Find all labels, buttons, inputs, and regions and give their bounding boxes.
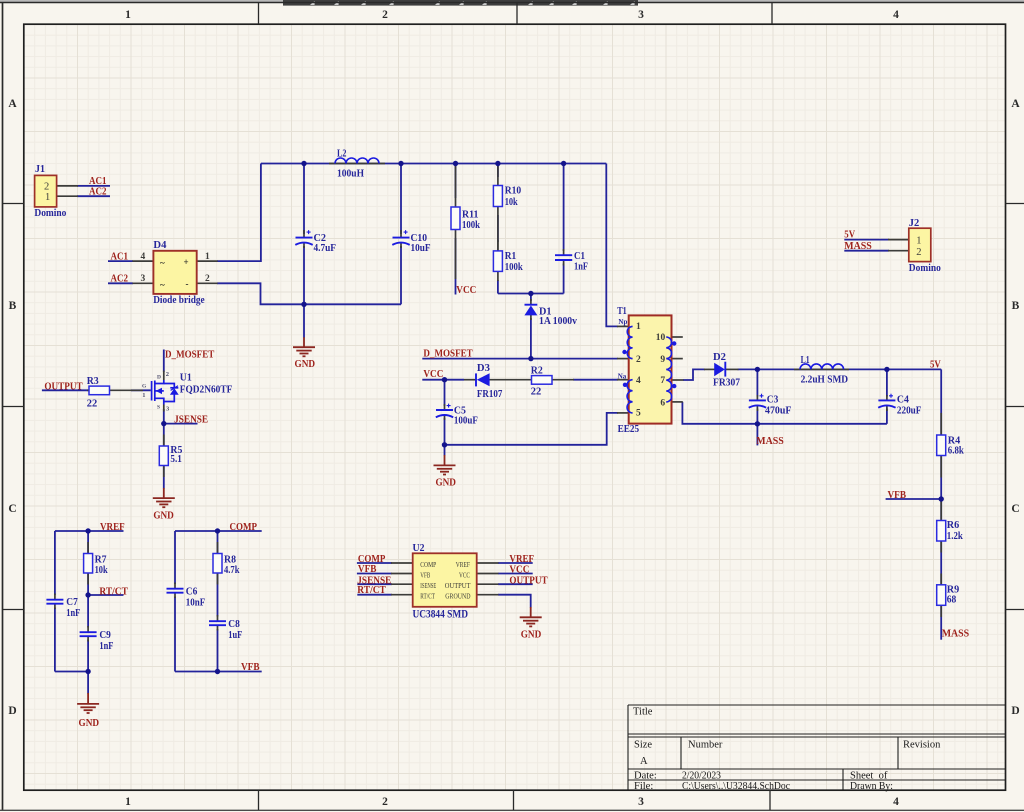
- wire R11 top leg: [455, 164, 457, 199]
- mosfet U1 labels: [142, 371, 233, 413]
- svg-text:5V: 5V: [844, 229, 855, 241]
- wire C2 top leg: [303, 164, 305, 235]
- svg-text:MASS: MASS: [942, 628, 970, 640]
- zone divider bottom 1|2: [258, 790, 260, 810]
- svg-text:R8: R8: [224, 554, 236, 565]
- svg-text:1: 1: [125, 9, 131, 21]
- svg-text:Domino: Domino: [909, 263, 941, 274]
- wire C7 bottom leg: [54, 608, 56, 672]
- wire C8 bottom leg: [217, 629, 219, 672]
- zone divider bottom 3|4: [769, 790, 771, 810]
- op-amp U2 controller box: [413, 543, 477, 621]
- svg-text:4: 4: [636, 376, 641, 386]
- svg-text:2: 2: [382, 796, 388, 808]
- svg-text:GND: GND: [153, 511, 174, 522]
- svg-text:D2: D2: [713, 352, 726, 363]
- junction C5 bottom: [442, 442, 447, 447]
- wire R8 top leg: [217, 531, 219, 554]
- wire DC+ top bus: [261, 163, 606, 165]
- svg-text:A: A: [1011, 98, 1020, 110]
- svg-text:FQD2N60TF: FQD2N60TF: [180, 383, 233, 395]
- wire U2 ISENSE stub: [357, 583, 392, 585]
- pin C1 bottom: [563, 260, 565, 266]
- mosfet U1 body diode triangle: [170, 388, 179, 395]
- svg-text:D: D: [8, 705, 16, 717]
- resistor R2: [531, 365, 552, 397]
- svg-text:9: 9: [660, 355, 665, 365]
- zone divider top 1|2: [258, 3, 260, 25]
- capacitor C3: [749, 394, 792, 417]
- pin C1 top: [563, 249, 565, 255]
- outer border bottom: [0, 809, 1024, 811]
- wire U1 source to JSENSE node: [163, 409, 165, 424]
- pin R2 right: [552, 379, 574, 381]
- svg-text:GND: GND: [79, 718, 100, 729]
- T1 polarity dot aux: [623, 383, 627, 387]
- svg-text:C:\Users\..\U32844.SchDoc: C:\Users\..\U32844.SchDoc: [682, 781, 790, 792]
- svg-text:1nF: 1nF: [574, 261, 588, 272]
- zone divider right C|D: [1006, 609, 1024, 611]
- svg-text:100k: 100k: [505, 262, 523, 273]
- wire C1 top leg: [563, 164, 565, 252]
- svg-text:RT/CT: RT/CT: [420, 591, 435, 600]
- pin C3 bottom: [756, 406, 758, 411]
- svg-text:220uF: 220uF: [897, 405, 922, 416]
- pin R5 bottom: [163, 466, 165, 478]
- svg-text:10k: 10k: [95, 565, 108, 576]
- wire R2 to T1 pin4: [573, 379, 618, 381]
- svg-text:1A 1000v: 1A 1000v: [539, 316, 578, 327]
- svg-text:1.2k: 1.2k: [947, 531, 963, 542]
- resistor R5: [159, 445, 182, 465]
- svg-text:D: D: [1011, 705, 1019, 717]
- wire R1 bottom leg: [497, 280, 499, 294]
- junction C2 bottom: [301, 302, 306, 307]
- wire snubber to D1 cathode: [530, 294, 532, 302]
- svg-text:COMP: COMP: [420, 560, 436, 569]
- junction R11 top: [453, 161, 458, 166]
- wire VCC to D3: [422, 379, 464, 381]
- diode D2: [713, 352, 740, 389]
- junction C4 top: [884, 367, 889, 372]
- resistor R10: [493, 186, 521, 208]
- wire MASS stub below C3: [756, 424, 758, 446]
- svg-text:3: 3: [638, 796, 644, 808]
- svg-text:VFB: VFB: [888, 489, 907, 501]
- svg-text:R7: R7: [95, 554, 107, 565]
- T1 secondary winding: [666, 337, 671, 402]
- pin C2 bottom: [303, 243, 305, 248]
- junction VFB divider: [939, 496, 944, 501]
- svg-text:-: -: [186, 279, 189, 289]
- svg-text:4: 4: [141, 252, 146, 262]
- svg-text:1: 1: [45, 192, 50, 203]
- wire U2 OUTPUT stub: [498, 583, 533, 585]
- wire C5 bottom leg: [444, 418, 446, 445]
- svg-text:J2: J2: [909, 218, 920, 229]
- wire R5 bottom to GND: [163, 465, 165, 489]
- diode D3: [476, 363, 502, 400]
- wire 5V to J2 pin1: [844, 239, 889, 241]
- ground symbol under U2: [520, 607, 542, 626]
- wire U2 GROUND to GND: [498, 595, 531, 608]
- pin J2-1: [888, 239, 909, 241]
- svg-text:4.7uF: 4.7uF: [314, 243, 337, 254]
- wire C10 bottom leg: [400, 246, 402, 304]
- pin R11 bottom: [455, 230, 457, 280]
- pin T1-4: [617, 379, 630, 381]
- zone divider left A|B: [3, 203, 24, 205]
- svg-text:1: 1: [142, 392, 145, 399]
- svg-text:VFB: VFB: [420, 570, 430, 579]
- svg-text:C4: C4: [897, 395, 910, 406]
- junction COMP rail: [215, 528, 220, 533]
- wire VFB node to R6: [940, 499, 942, 522]
- svg-text:3: 3: [638, 9, 644, 21]
- svg-text:470uF: 470uF: [765, 405, 792, 416]
- ground symbol under C5: [434, 455, 456, 475]
- svg-text:22: 22: [531, 387, 542, 398]
- svg-text:D_MOSFET: D_MOSFET: [423, 347, 473, 359]
- zone divider left C|D: [3, 609, 24, 611]
- inductor L2: [335, 149, 379, 180]
- svg-text:T1: T1: [617, 306, 627, 317]
- svg-text:AC2: AC2: [89, 186, 107, 198]
- svg-text:C7: C7: [66, 597, 78, 608]
- capacitor C10: [392, 230, 430, 254]
- pin D4-2: [197, 282, 218, 284]
- svg-text:UC3844 SMD: UC3844 SMD: [413, 608, 469, 620]
- pin U2 COMP: [391, 562, 413, 564]
- svg-text:R6: R6: [947, 520, 960, 531]
- wire AC1 to bridge pin4: [108, 260, 133, 262]
- svg-text:COMP: COMP: [230, 521, 258, 533]
- wire OUTPUT to R3: [42, 389, 89, 391]
- svg-text:10uF: 10uF: [411, 243, 431, 254]
- svg-text:RT/CT: RT/CT: [99, 586, 128, 598]
- wire T1 pin7 to D2: [683, 369, 705, 380]
- wire C9 bottom leg: [87, 640, 89, 672]
- pin C6 top: [174, 583, 176, 589]
- svg-text:A: A: [8, 98, 17, 110]
- pin L2 base: [329, 163, 385, 165]
- wire D_MOSFET horizontal to T1 pin2: [422, 358, 618, 360]
- svg-text:100k: 100k: [462, 220, 480, 231]
- junction RT/CT: [85, 592, 90, 597]
- zone divider left B|C: [3, 406, 24, 408]
- pin T1-5: [617, 412, 630, 414]
- mosfet U1: [152, 380, 179, 405]
- wire 5V rail down to R4: [940, 369, 942, 436]
- svg-text:A: A: [640, 756, 648, 767]
- svg-text:1nF: 1nF: [99, 641, 113, 652]
- svg-text:U2: U2: [413, 543, 425, 554]
- svg-text:VCC: VCC: [423, 368, 443, 380]
- wire C6 bottom leg: [174, 597, 176, 672]
- outer border top: [0, 2, 1024, 4]
- svg-text:2: 2: [636, 355, 641, 365]
- svg-text:R3: R3: [87, 376, 99, 387]
- junction VFB bottom rail: [215, 669, 220, 674]
- junction VREF rail: [85, 528, 90, 533]
- svg-text:D_MOSFET: D_MOSFET: [165, 349, 215, 361]
- pin U2 ISENSE: [391, 583, 413, 585]
- svg-text:OUTPUT: OUTPUT: [44, 381, 83, 393]
- svg-text:S: S: [157, 405, 160, 411]
- wire JSENSE label stub: [164, 423, 198, 425]
- pin J1-2: [57, 185, 78, 187]
- pin J2-2: [888, 250, 909, 252]
- svg-text:OUTPUT: OUTPUT: [509, 574, 548, 586]
- wire D2 cathode to 5V rail: [738, 368, 942, 370]
- svg-text:MASS: MASS: [844, 240, 872, 252]
- wire R1-C1 bottom link: [498, 293, 564, 295]
- resistor R3: [87, 376, 110, 409]
- pin C10 bottom: [400, 243, 402, 248]
- capacitor C4: [878, 394, 921, 417]
- pin T1-7: [671, 379, 684, 381]
- wire C4 top leg: [886, 369, 888, 396]
- wire DC+ bus down to T1 pin1: [606, 164, 618, 327]
- pin R9 bottom: [940, 606, 942, 617]
- pin C4 bottom: [886, 406, 888, 411]
- T1 polarity dot sec top: [672, 341, 676, 345]
- wire RT/CT label stub: [88, 594, 123, 596]
- svg-text:B: B: [1012, 300, 1020, 312]
- pin C9 bottom: [87, 636, 89, 642]
- pin R7 bottom: [87, 573, 89, 585]
- svg-text:+: +: [184, 257, 189, 267]
- svg-text:2: 2: [916, 247, 921, 258]
- svg-text:Drawn By:: Drawn By:: [850, 781, 893, 792]
- top dark tab bar: [283, 0, 638, 6]
- wire C6 left leg down: [174, 531, 176, 584]
- pin R11 top: [455, 165, 457, 207]
- resistor R11: [451, 207, 480, 231]
- svg-text:C8: C8: [228, 619, 240, 630]
- pin R3 right to gate: [110, 389, 144, 391]
- wire aux return to T1 pin5: [445, 413, 619, 445]
- svg-text:C10: C10: [411, 233, 428, 244]
- svg-text:2.2uH SMD: 2.2uH SMD: [801, 375, 849, 386]
- svg-text:5.1: 5.1: [170, 454, 182, 465]
- svg-text:Domino: Domino: [34, 208, 66, 219]
- resistor R4: [937, 435, 964, 456]
- wire R10 top leg: [497, 164, 499, 178]
- connector J1: [34, 164, 66, 219]
- pin T1-10: [671, 336, 683, 338]
- svg-text:7: 7: [660, 376, 665, 386]
- pin R6 top: [940, 501, 942, 521]
- T1 primary winding Np: [627, 326, 632, 358]
- pin R3 left: [87, 389, 90, 391]
- svg-text:4: 4: [893, 9, 899, 21]
- pin C2 top: [303, 230, 305, 238]
- svg-text:MASS: MASS: [756, 435, 784, 447]
- wire J1 pin2 to AC1 label: [77, 185, 110, 187]
- svg-text:10k: 10k: [505, 197, 518, 208]
- wire U2 COMP stub: [357, 562, 392, 564]
- pin T1-2: [617, 358, 630, 360]
- svg-text:J1: J1: [35, 164, 45, 175]
- wire AC2 to bridge pin3: [108, 282, 133, 284]
- svg-text:GND: GND: [521, 630, 542, 641]
- svg-text:4: 4: [893, 796, 899, 808]
- pin C8 top: [217, 615, 219, 621]
- svg-text:C: C: [1011, 503, 1019, 515]
- svg-text:68: 68: [947, 595, 957, 606]
- wire C5 top leg: [444, 380, 446, 406]
- svg-text:~: ~: [160, 280, 165, 290]
- svg-text:AC2: AC2: [111, 272, 129, 284]
- svg-text:2: 2: [44, 181, 49, 192]
- svg-text:G: G: [142, 384, 147, 390]
- junction D1 anode D_MOSFET: [528, 356, 533, 361]
- diode bridge D4: [141, 240, 211, 306]
- svg-text:D: D: [157, 374, 161, 380]
- connector J2: [909, 218, 941, 274]
- junction snubber D1: [528, 291, 533, 296]
- svg-text:100uF: 100uF: [454, 416, 478, 427]
- pin D1 anode: [530, 315, 532, 320]
- svg-text:2: 2: [166, 371, 169, 378]
- zone divider top 2|3: [516, 3, 518, 25]
- resistor R1: [493, 251, 522, 273]
- svg-text:R10: R10: [505, 186, 522, 197]
- wire R10 to R1: [497, 215, 499, 242]
- svg-text:EE25: EE25: [618, 424, 640, 435]
- pin D3 cathode: [464, 379, 476, 381]
- pin R10 top: [497, 165, 499, 186]
- pin R4 top: [940, 413, 942, 435]
- wire U2 RT/CT stub: [357, 594, 392, 596]
- wire C3 bottom leg: [756, 409, 758, 424]
- pin R10 bottom: [497, 207, 499, 252]
- pin R5 top: [163, 435, 165, 447]
- pin C5 top: [444, 404, 446, 410]
- pin C6 bottom: [174, 593, 176, 599]
- svg-text:C9: C9: [99, 630, 111, 641]
- svg-text:B: B: [9, 300, 17, 312]
- pin C3 top: [756, 395, 758, 401]
- ground symbol under DC- bus: [293, 337, 315, 356]
- svg-text:L1: L1: [801, 355, 810, 366]
- svg-text:JSENSE: JSENSE: [174, 414, 208, 426]
- wire VREF top rail: [55, 530, 124, 532]
- resistor R7: [84, 554, 108, 576]
- wire RT/CT node to C9: [87, 595, 89, 628]
- svg-text:GND: GND: [435, 477, 456, 488]
- junction C3 top: [755, 367, 760, 372]
- pin C4 top: [886, 395, 888, 401]
- svg-text:U1: U1: [180, 372, 192, 384]
- capacitor C9: [80, 630, 114, 652]
- pin D2 anode: [704, 368, 715, 370]
- ground symbol under R5: [153, 488, 175, 507]
- outer border left: [2, 3, 4, 811]
- wire GND node stub left group: [87, 672, 89, 694]
- svg-text:Title: Title: [633, 707, 653, 718]
- svg-text:Sheet of: Sheet of: [850, 771, 888, 782]
- svg-text:R2: R2: [531, 365, 543, 376]
- wire R11 bottom to VCC label: [455, 238, 457, 295]
- svg-text:4.7k: 4.7k: [224, 565, 240, 576]
- svg-text:GND: GND: [295, 359, 316, 370]
- capacitor C7: [46, 597, 80, 619]
- svg-text:1: 1: [636, 322, 641, 332]
- svg-text:D4: D4: [153, 240, 167, 251]
- wire bottom link C7 to GND node: [55, 671, 88, 673]
- svg-text:1nF: 1nF: [66, 608, 80, 619]
- wire R7 bottom to RT/CT node: [87, 572, 89, 595]
- capacitor C5: [436, 404, 478, 427]
- svg-text:R11: R11: [462, 209, 479, 220]
- svg-text:D3: D3: [477, 363, 490, 374]
- svg-text:5V: 5V: [930, 359, 941, 371]
- wire C4 bottom leg: [886, 409, 888, 424]
- wire C7 left leg down: [54, 531, 56, 595]
- svg-text:1: 1: [916, 236, 921, 247]
- svg-text:2/20/2023: 2/20/2023: [682, 771, 721, 782]
- wire C10 top leg: [400, 164, 402, 235]
- wire C5 to GND stub: [444, 445, 446, 456]
- junction C1 top: [561, 161, 566, 166]
- inductor L1: [800, 355, 848, 386]
- pin D2 cathode: [725, 368, 739, 370]
- pin C7 top: [54, 594, 56, 600]
- ground symbol under C9 group: [77, 693, 99, 713]
- junction GND node left group: [85, 669, 90, 674]
- T1 polarity dot sec mid: [672, 384, 676, 388]
- pin R7 top: [87, 542, 89, 554]
- pin R4 bottom: [940, 455, 942, 478]
- resistor R9: [937, 585, 960, 606]
- svg-text:File:: File:: [634, 781, 653, 792]
- pin T1-1: [617, 325, 630, 327]
- pin U1 drain: [163, 371, 165, 381]
- pin D4-3: [132, 282, 153, 284]
- svg-text:Revision: Revision: [903, 740, 941, 751]
- svg-text:10nF: 10nF: [186, 598, 206, 609]
- junction C3 bottom MASS: [755, 421, 760, 426]
- resistor R6: [937, 520, 963, 542]
- svg-text:AC1: AC1: [111, 251, 129, 263]
- wire U2 VCC stub: [498, 573, 533, 575]
- wire D1 anode down to D_MOSFET net: [530, 318, 532, 359]
- wire J1 pin1 to AC2 label: [77, 195, 110, 197]
- pin R9 top: [940, 574, 942, 586]
- transformer T1: [617, 306, 676, 435]
- T1 polarity dot primary: [622, 350, 626, 354]
- pin D4-1: [197, 260, 218, 262]
- svg-text:100uH: 100uH: [337, 169, 364, 180]
- svg-text:Na: Na: [618, 373, 627, 381]
- pin U2 OUTPUT: [477, 583, 499, 585]
- pin T1-6: [671, 401, 683, 403]
- zone divider right A|B: [1006, 203, 1024, 205]
- wire R6 to R9: [940, 540, 942, 586]
- wire VFB label stub: [886, 498, 942, 500]
- resistor R8: [213, 554, 240, 576]
- svg-text:VREF: VREF: [100, 521, 125, 533]
- wire R4 bottom to VFB node: [940, 454, 942, 499]
- pin U2 VCC: [477, 573, 499, 575]
- svg-text:VCC: VCC: [456, 284, 476, 296]
- pin U2 VFB: [391, 573, 413, 575]
- wire bottom VFB rail: [175, 671, 262, 673]
- svg-text:5: 5: [636, 408, 641, 418]
- svg-text:1uF: 1uF: [228, 630, 242, 641]
